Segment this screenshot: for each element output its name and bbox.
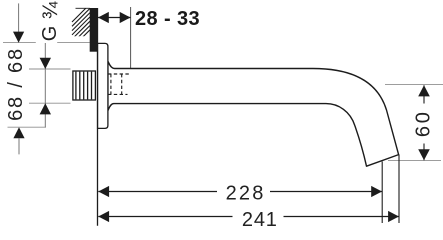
dimension 228 <box>98 183 382 205</box>
svg-text:241: 241 <box>242 209 278 231</box>
svg-text:28 - 33: 28 - 33 <box>135 8 200 30</box>
dimension G 3/4 leader arrow <box>13 3 24 42</box>
wall bar <box>90 8 98 52</box>
hidden thread dashed lines <box>108 74 131 94</box>
dimension 28-33 <box>98 8 200 30</box>
dimension 68/68 bottom outer arrow <box>13 127 24 154</box>
svg-text:228: 228 <box>226 183 266 205</box>
wire extension line spout tip 241 <box>398 155 400 224</box>
wall hatching <box>72 4 90 48</box>
escutcheon flange <box>98 43 108 128</box>
node ref line tube top left <box>29 68 71 70</box>
node ref line flange bottom left <box>8 126 47 128</box>
svg-text:68 / 68: 68 / 68 <box>5 47 27 121</box>
threaded nipple G3/4 <box>73 71 96 100</box>
svg-text:G ¾: G ¾ <box>39 1 62 41</box>
node ref line spout centerline right <box>385 84 443 86</box>
wall hatch top edge <box>76 7 90 9</box>
node ref line flange top left <box>3 42 90 44</box>
dimension 241 <box>98 209 399 231</box>
wire extension line outlet 228 <box>381 162 383 224</box>
spout tube and bend outline <box>108 61 399 166</box>
node ref line tube bottom left <box>29 102 71 104</box>
svg-text:60: 60 <box>412 109 434 137</box>
wire extension line pipe end (28-33) <box>130 7 132 69</box>
dimension 60 <box>412 85 434 160</box>
dimension 68/68 inner arrows <box>40 43 51 127</box>
wire extension line wall face vertical <box>97 8 99 226</box>
node ref line outlet bottom right <box>388 159 441 161</box>
